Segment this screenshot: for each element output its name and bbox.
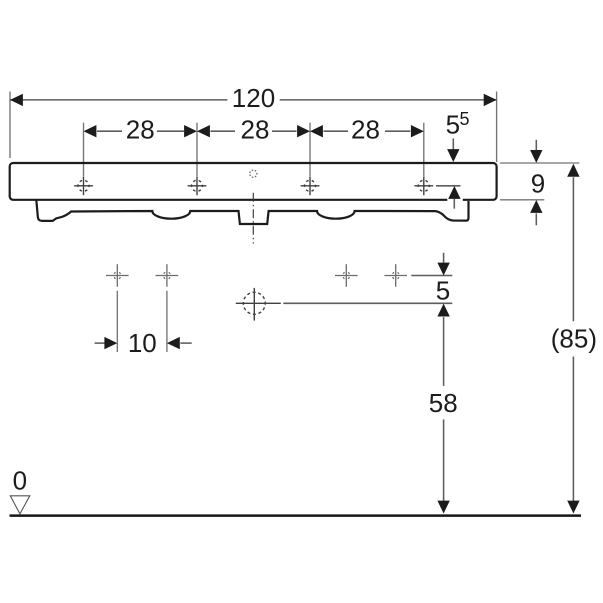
dimension 28 third arrows [310, 125, 323, 137]
fixing hole extension line 2 [166, 291, 168, 352]
drain hole crosshair [236, 288, 281, 321]
basin body [10, 163, 497, 200]
dimension 9 upper arrow [535, 140, 537, 150]
fixing hole crosshair right 1 [335, 264, 358, 287]
dimension 120 arrow left [10, 94, 23, 106]
fixing hole extension line 1 [116, 291, 118, 352]
dimension 28 first line [97, 130, 122, 132]
dimension 120 extension line right [496, 92, 498, 163]
svg-text:(85): (85) [551, 323, 597, 353]
dimension 9 bottom extension line [500, 199, 544, 201]
dimension 10 right arrow [167, 337, 180, 349]
tap hole crosshair 3 [301, 176, 320, 195]
dimension 85 lower line and arrow [572, 357, 574, 502]
dimension 10 left arrow [95, 342, 105, 344]
svg-text:10: 10 [128, 328, 157, 358]
svg-text:5: 5 [436, 276, 450, 306]
dimension 58 lower line and arrow [443, 419, 445, 501]
svg-text:5: 5 [460, 109, 470, 129]
tap hole extension line 2 [196, 123, 198, 176]
svg-text:28: 28 [241, 115, 270, 145]
svg-text:58: 58 [429, 388, 458, 418]
dimension 120 extension line left [9, 92, 11, 159]
tap hole extension line 3 [309, 123, 311, 176]
tap hole crosshair 1 [74, 176, 93, 195]
dimension 9 lower arrow [530, 200, 542, 213]
dimension 28 first arrows [84, 125, 97, 137]
svg-text:28: 28 [126, 115, 155, 145]
dimension 28 second line [211, 130, 236, 132]
under-basin outline [36, 200, 468, 224]
dimension 28 second arrows [197, 125, 210, 137]
svg-text:0: 0 [13, 466, 27, 496]
fixing hole crosshair left 1 [106, 264, 129, 287]
floor line [10, 514, 582, 517]
datum triangle [10, 496, 30, 514]
dimension 5 upper line [411, 275, 452, 277]
tap hole crosshair 2 [188, 176, 207, 195]
dimension 58 datum line [283, 302, 452, 304]
tap hole extension line 1 [83, 123, 85, 176]
overflow hole [250, 170, 257, 177]
dimension 85 upper arrow [567, 164, 579, 177]
svg-text:28: 28 [351, 115, 380, 145]
svg-text:9: 9 [531, 168, 545, 198]
fixing hole crosshair right 2 [384, 264, 407, 287]
dimension 28 third line [324, 130, 349, 132]
dimension 5 upper arrow [443, 253, 445, 264]
tap hole extension line 4 [423, 123, 425, 176]
white gap in basin bottom edge [447, 196, 463, 204]
tap hole dimension line to 5.5 [436, 185, 461, 187]
tap hole crosshair 4 [414, 176, 433, 195]
dimension 58 upper arrow [437, 304, 449, 317]
dimension 120 line [10, 99, 227, 101]
fixing hole crosshair left 2 [156, 264, 179, 287]
center line of drain [252, 193, 254, 244]
dimension 5.5 lower arrow [448, 186, 460, 199]
svg-text:120: 120 [232, 83, 275, 113]
dimension 9 top extension line [500, 162, 580, 164]
dimension 120 arrow right [484, 94, 497, 106]
dimension 5.5 upper arrow [452, 138, 454, 150]
svg-text:5: 5 [446, 110, 460, 140]
